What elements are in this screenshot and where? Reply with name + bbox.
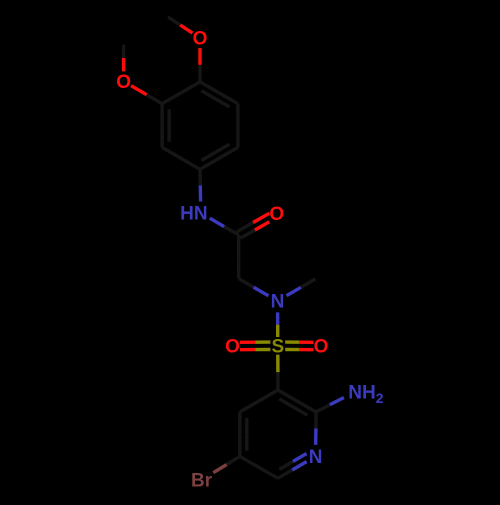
svg-text:2: 2 (376, 390, 384, 406)
svg-text:O: O (269, 204, 284, 225)
svg-text:O: O (225, 337, 240, 358)
svg-text:N: N (309, 447, 323, 468)
svg-text:O: O (193, 29, 208, 50)
svg-text:Br: Br (191, 470, 213, 491)
svg-text:O: O (116, 72, 131, 93)
svg-text:NH: NH (348, 382, 375, 403)
svg-text:HN: HN (180, 204, 207, 225)
svg-text:N: N (271, 291, 285, 312)
svg-text:O: O (314, 337, 329, 358)
svg-text:S: S (271, 336, 284, 357)
